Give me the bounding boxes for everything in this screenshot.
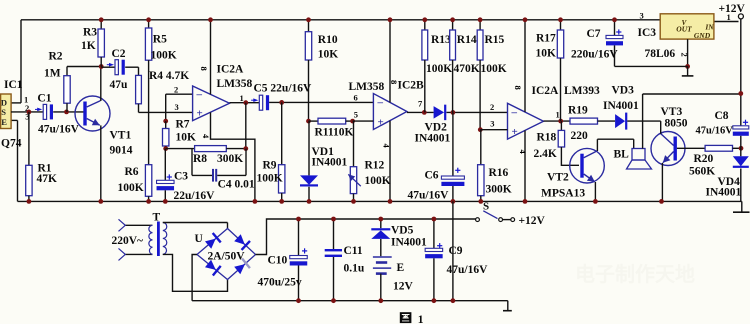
svg-text:IC2B: IC2B — [398, 80, 425, 92]
svg-text:10K: 10K — [536, 48, 557, 60]
resistor R10 — [305, 20, 311, 121]
svg-text:VT2: VT2 — [547, 172, 569, 184]
wire: C5 to IC2B pin6 — [269, 101, 373, 103]
capacitor C3 — [157, 149, 175, 202]
node: R9 top junction — [279, 100, 284, 105]
svg-text:5: 5 — [354, 109, 358, 119]
node: R5 top on +12V rail — [146, 17, 151, 22]
wire: secondary top to bridge — [163, 223, 228, 229]
IC2A pin 8 power riser — [199, 20, 211, 95]
svg-text:VT1: VT1 — [110, 130, 132, 142]
LM393 pin 8 power riser — [513, 20, 525, 112]
wire: R18 to VT2 base — [561, 147, 579, 165]
node: IC2A pin8 on +12V rail — [208, 17, 213, 22]
svg-text:VD3: VD3 — [612, 85, 635, 97]
node: C9 bottom — [432, 298, 437, 303]
R3 labels — [81, 27, 97, 53]
resistor R20 — [705, 145, 741, 151]
svg-text:+: + — [378, 117, 384, 129]
svg-text:C2: C2 — [112, 48, 126, 60]
transformer T primary lead bottom — [125, 253, 152, 255]
svg-text:S: S — [483, 201, 489, 213]
C3 labels — [174, 171, 216, 203]
R13 label — [426, 34, 452, 75]
svg-text:R16: R16 — [489, 167, 509, 179]
VD2 labels — [415, 122, 451, 145]
R2 labels — [44, 51, 63, 80]
wire: VT2 collector to speaker — [597, 139, 633, 148]
resistor R3 — [98, 20, 104, 67]
node: R13 bottom junction on output wire — [422, 110, 427, 115]
svg-text:1: 1 — [240, 93, 244, 103]
svg-text:R7: R7 — [176, 119, 190, 131]
wire: R5 bottom to R6 top (crosses pin3 line) — [148, 60, 150, 165]
terminal: +12V top right — [738, 14, 743, 19]
caption: figure 1 — [400, 312, 424, 324]
R20 labels — [689, 153, 715, 178]
R9 labels — [257, 160, 283, 185]
svg-text:+: + — [512, 126, 518, 138]
svg-text:C11: C11 — [344, 245, 363, 257]
node: VD5 top — [378, 217, 383, 222]
svg-text:10K: 10K — [176, 132, 197, 144]
svg-text:1: 1 — [556, 110, 560, 120]
R12 labels — [365, 160, 391, 188]
wire: VT3 base to R20 — [677, 147, 705, 149]
wire: bridge DC+ line — [256, 219, 476, 255]
svg-text:47u/16V: 47u/16V — [408, 190, 450, 202]
svg-text:R2: R2 — [49, 51, 63, 63]
node: battery to supply ground — [378, 298, 383, 303]
resistor R19 — [570, 118, 615, 124]
node: IC2B pin8 on +12V rail — [388, 17, 393, 22]
wire: IC1 pin2 to C1 — [11, 111, 43, 113]
svg-text:C6: C6 — [425, 170, 439, 182]
svg-text:R1110K: R1110K — [315, 127, 354, 139]
capacitor C2 — [101, 60, 125, 75]
svg-text:12V: 12V — [393, 281, 414, 293]
C4 label — [218, 179, 255, 191]
op-amp IC2B LM358 — [373, 94, 407, 130]
IC2A pin 1 label — [240, 93, 244, 103]
resistor R11 — [309, 118, 353, 124]
wire: IC2A pin3 input line — [139, 111, 193, 113]
VT3 emitter — [662, 152, 673, 202]
C7 labels — [571, 28, 618, 61]
svg-text:6: 6 — [354, 93, 358, 103]
node: C8 top junction — [738, 91, 743, 96]
svg-text:470u/25v: 470u/25v — [258, 277, 302, 289]
node: IC2A pin4 to ground rail — [253, 199, 258, 204]
IC1 pin 1 label — [24, 95, 28, 105]
diode VD1 IN4001 — [300, 121, 318, 201]
node: LM393 pin4 to ground rail — [523, 199, 528, 204]
svg-text:IN4001: IN4001 — [415, 133, 451, 145]
svg-text:IC2A: IC2A — [217, 64, 245, 76]
VT1 collector — [87, 67, 101, 108]
svg-text:E: E — [397, 262, 405, 274]
svg-text:VD5: VD5 — [391, 225, 414, 237]
svg-text:220u/16V: 220u/16V — [571, 49, 618, 61]
bridge diode bottom-right — [233, 259, 250, 276]
svg-text:22u/16V: 22u/16V — [174, 190, 216, 202]
svg-text:C10: C10 — [268, 255, 288, 267]
node: C11 top — [331, 217, 336, 222]
wire: IC2A output — [230, 102, 260, 104]
node: R3/R2/C2/VT1-collector junction — [99, 64, 104, 69]
svg-text:2.4K: 2.4K — [534, 148, 557, 160]
svg-text:8050: 8050 — [665, 118, 688, 130]
svg-text:100K: 100K — [118, 182, 144, 194]
resistor R8 — [166, 146, 246, 152]
wire: right +12V rail — [740, 19, 742, 126]
+12V label (switch) — [519, 215, 546, 227]
C10 labels — [258, 255, 302, 289]
svg-text:100K: 100K — [151, 50, 177, 62]
svg-text:IN4001: IN4001 — [391, 237, 427, 249]
wire: IC1 pin1 riser to top rail — [11, 20, 21, 103]
bridge diode top-right — [233, 233, 250, 250]
12V label — [393, 281, 414, 293]
wire: IC2A pin2 input line — [166, 94, 193, 121]
svg-text:560K: 560K — [689, 166, 715, 178]
svg-text:2: 2 — [174, 85, 178, 95]
wire: C1 to VT1 base — [53, 111, 84, 113]
node: IC3 GND junction — [685, 64, 690, 69]
svg-text:100K: 100K — [426, 63, 452, 75]
wire: secondary bottom to bridge — [163, 254, 228, 291]
VT3 collector — [661, 121, 674, 145]
IC2B pin 6 label — [354, 93, 358, 103]
VT1 labels — [110, 130, 133, 157]
op-amp U2A LM358 (IC2A) — [193, 86, 230, 121]
svg-text:C8: C8 — [715, 110, 729, 122]
svg-text:R17: R17 — [536, 33, 556, 45]
battery E 12V — [373, 239, 392, 301]
node: R17 top on rail — [558, 17, 563, 22]
node: C9 top — [432, 217, 437, 222]
svg-text:R13: R13 — [431, 34, 451, 46]
svg-text:47u/16V: 47u/16V — [696, 126, 734, 137]
svg-text:220V~: 220V~ — [112, 235, 144, 247]
wire: top +12V supply rail — [21, 19, 660, 21]
svg-text:R12: R12 — [365, 160, 385, 172]
node: R9 to ground rail — [279, 199, 284, 204]
svg-text:R18: R18 — [537, 132, 557, 144]
C9 labels — [447, 245, 489, 276]
svg-text:R15: R15 — [485, 34, 505, 46]
node: VT1 base node (R2 bottom) — [64, 110, 69, 115]
resistor R2 — [64, 67, 101, 112]
R6 labels — [118, 166, 144, 194]
IC1 part number Q74 — [1, 138, 22, 150]
svg-text:0.1u: 0.1u — [344, 263, 365, 275]
IC3 pin 2 (GND) drop — [680, 39, 690, 66]
svg-text:470K: 470K — [454, 63, 480, 75]
svg-text:IC1: IC1 — [4, 79, 23, 91]
wire: ground rail link to supply ground — [452, 201, 454, 300]
wire: output to R8 feedback — [245, 103, 247, 149]
2A/50V label — [208, 251, 246, 263]
R11 label — [315, 127, 354, 139]
VT2 collector — [584, 139, 598, 158]
svg-text:R9: R9 — [263, 160, 277, 172]
capacitor C6 — [441, 112, 464, 201]
transistor VT1 9014 — [75, 96, 110, 131]
node: VT2 emitter to ground — [593, 199, 598, 204]
node: R16 to ground rail — [478, 199, 483, 204]
LM393 pin 2 label — [490, 102, 494, 112]
svg-text:10K: 10K — [318, 49, 339, 61]
svg-text:R3: R3 — [83, 27, 97, 39]
resistor R18 — [558, 121, 564, 147]
VD4 labels — [706, 176, 742, 199]
resistor R7 — [163, 121, 169, 149]
node: VT3 emitter to ground — [659, 199, 664, 204]
BL label — [614, 149, 630, 161]
bridge diode top-left — [204, 233, 221, 250]
C1 value label — [38, 124, 80, 136]
svg-text:R20: R20 — [694, 153, 714, 165]
LM393 pin 4 ground drop — [518, 130, 528, 201]
R8 labels — [193, 153, 243, 165]
VD1 labels — [312, 146, 348, 169]
capacitor C8 — [733, 120, 749, 157]
R1 labels — [37, 163, 58, 186]
IC1 pin 3 label — [25, 112, 29, 122]
node: C10 bottom — [296, 298, 301, 303]
svg-text:C9: C9 — [449, 245, 463, 257]
LM393 pin 3 label — [490, 119, 494, 129]
R19 labels — [568, 105, 588, 143]
capacitor C5 — [251, 95, 269, 110]
svg-text:R10: R10 — [318, 34, 338, 46]
svg-text:300K: 300K — [217, 153, 243, 165]
LM393 labels — [532, 85, 601, 97]
svg-text:C1: C1 — [37, 93, 51, 105]
svg-text:8: 8 — [199, 67, 209, 71]
R5 labels — [151, 34, 177, 62]
ground: under IC3 — [682, 66, 694, 76]
capacitor C10 — [290, 219, 308, 301]
svg-text:C3: C3 — [174, 171, 188, 183]
svg-text:IC2A: IC2A — [532, 85, 560, 97]
resistor R15 — [477, 20, 483, 130]
svg-text:8: 8 — [513, 86, 523, 90]
capacitor C9 — [425, 219, 443, 301]
IC3 regulator 78L06 box — [660, 14, 714, 40]
svg-text:3: 3 — [175, 102, 179, 112]
IC1 pin 2 label — [25, 103, 29, 113]
svg-text:MPSA13: MPSA13 — [541, 188, 585, 200]
svg-text:220: 220 — [571, 130, 589, 142]
node: R6 to ground rail — [146, 199, 151, 204]
svg-text:E: E — [1, 117, 7, 127]
IC2A labels — [217, 64, 253, 91]
node: IC2A output junction — [243, 100, 248, 105]
svg-text:IN4001: IN4001 — [312, 157, 348, 169]
node: R20 to right rail — [739, 146, 744, 151]
resistor R4 — [125, 67, 141, 112]
VD5 labels — [391, 225, 427, 249]
node: C7 top on rail — [612, 17, 617, 22]
svg-text:47K: 47K — [37, 173, 58, 185]
svg-text:9014: 9014 — [110, 145, 133, 157]
wire: IC2B pin5 input — [353, 120, 374, 122]
node: IC2B pin4 to ground rail — [388, 199, 393, 204]
IC2B pin 7 label — [418, 99, 423, 109]
capacitor C11 — [325, 219, 342, 301]
wire: LM393 output — [544, 120, 571, 122]
transistor VT2 MPSA13 — [570, 148, 605, 183]
svg-text:1: 1 — [418, 314, 424, 324]
resistor R17 — [557, 20, 563, 121]
node: R14 top on rail — [450, 17, 455, 22]
node: R15/R16/LM393 pin3 junction — [478, 127, 483, 132]
bridge rectifier U 2A/50V — [197, 229, 256, 280]
svg-text:R4 4.7K: R4 4.7K — [149, 70, 189, 82]
U label — [195, 233, 204, 245]
svg-text:300K: 300K — [486, 184, 512, 196]
IC2A pin 4 ground path — [201, 112, 255, 201]
IC3 pin 3 label — [640, 11, 644, 21]
node: R7 top junction — [163, 119, 168, 124]
svg-text:R14: R14 — [457, 34, 477, 46]
decorative watermark (very faint) — [575, 262, 695, 286]
VT3 labels — [661, 106, 688, 130]
svg-text:C5 22u/16V: C5 22u/16V — [254, 83, 313, 95]
terminal marks 220V input — [119, 219, 126, 260]
VT2 labels — [541, 172, 585, 200]
svg-text:100K: 100K — [481, 63, 507, 75]
VT2 emitter — [584, 174, 596, 201]
svg-text:+12V: +12V — [719, 3, 746, 15]
svg-text:1K: 1K — [81, 40, 96, 52]
R15 label — [481, 34, 507, 75]
IC2A pin 3 label — [175, 102, 179, 112]
wire: VD3 cathode node — [627, 120, 660, 122]
bridge diode bottom-left — [204, 259, 221, 276]
+12V label (top) — [719, 3, 746, 15]
diode VD5 IN4001 — [371, 219, 390, 239]
IC3 pin 1 label — [727, 12, 731, 22]
C8 labels — [696, 110, 734, 137]
node: R15 top on rail — [478, 17, 483, 22]
node: R10 top on +12V rail — [306, 17, 311, 22]
resistor R9 — [279, 102, 285, 201]
svg-text:78L06: 78L06 — [645, 48, 676, 60]
node: C3 to ground rail — [163, 199, 168, 204]
C11 labels — [344, 245, 365, 275]
svg-text:D: D — [1, 98, 7, 108]
220V~ label — [112, 235, 144, 247]
svg-text:OUT: OUT — [676, 25, 692, 34]
resistor R6 — [145, 165, 151, 202]
E label — [397, 262, 405, 274]
VT1 emitter — [87, 119, 101, 202]
svg-text:电子制作天地: 电子制作天地 — [575, 262, 695, 286]
svg-text:2: 2 — [680, 53, 690, 57]
op-amp IC2A LM393 — [508, 103, 544, 139]
C6 labels — [408, 170, 450, 202]
resistor R16 — [478, 130, 484, 202]
svg-text:+12V: +12V — [519, 215, 546, 227]
R18 labels — [534, 132, 557, 161]
node: R10/R11/VD1 junction — [306, 119, 311, 124]
IC2B pin 5 label — [354, 109, 358, 119]
svg-text:R5: R5 — [153, 34, 167, 46]
wire: LM393 pin3 input — [480, 129, 507, 131]
wire: bridge DC- to supply ground — [192, 255, 197, 301]
capacitor C4 — [192, 149, 246, 182]
wire: VD2 cathode to LM393 pin2 — [447, 111, 508, 113]
svg-text:1: 1 — [727, 12, 731, 22]
IC1 label — [4, 79, 23, 91]
diode VD4 IN4001 — [733, 156, 749, 201]
IC3 labels — [638, 27, 676, 60]
svg-text:R19: R19 — [568, 105, 588, 117]
svg-text:BL: BL — [614, 149, 630, 161]
node: LM393 output junction — [558, 119, 563, 124]
svg-text:47u/16V: 47u/16V — [38, 124, 80, 136]
wire: IC2B output to VD2 — [407, 111, 434, 113]
svg-text:1M: 1M — [44, 68, 61, 80]
diode VD3 IN4001 — [615, 113, 627, 130]
wire: speaker to VD3 node and +12V — [643, 94, 741, 149]
svg-text:Q74: Q74 — [1, 138, 22, 150]
node: R7 bottom junction — [163, 146, 168, 151]
IC1 sensor box Q74 — [1, 94, 12, 129]
C1 designator — [37, 93, 51, 105]
node: R1 to ground rail — [27, 199, 32, 204]
R10 labels — [318, 34, 339, 61]
svg-text:LM358: LM358 — [349, 81, 385, 93]
node: LM393 pin8 on rail — [523, 17, 528, 22]
node: VT1 emitter to ground — [98, 199, 103, 204]
resistor R13 — [422, 20, 428, 113]
svg-text:2A/50V: 2A/50V — [208, 251, 246, 263]
wire: IC1 pin3 to ground rail — [11, 120, 18, 201]
S label — [483, 201, 489, 213]
node: VD2/R14/C6 junction — [451, 110, 456, 115]
R16 labels — [486, 167, 512, 196]
IC2B pin 8 power riser — [389, 20, 391, 103]
svg-text:–: – — [377, 97, 384, 109]
node: C11 bottom — [331, 298, 336, 303]
R14 label — [454, 34, 480, 75]
svg-text:2: 2 — [490, 102, 494, 112]
IC2B labels — [349, 80, 425, 94]
transformer T primary lead top — [125, 224, 152, 226]
resistor R5 — [145, 20, 151, 60]
svg-text:IN4001: IN4001 — [603, 100, 639, 112]
potentiometer R12 — [348, 121, 361, 201]
node: R8 right junction — [243, 146, 248, 151]
svg-text:C7: C7 — [587, 28, 601, 40]
IC2B pin 4 ground drop — [382, 121, 392, 202]
svg-text:VT3: VT3 — [661, 106, 683, 118]
C2 labels — [110, 48, 129, 91]
transistor VT3 8050 — [651, 132, 685, 166]
node: IC1 pin2 junction — [27, 110, 32, 115]
wire: supply ground line — [192, 300, 508, 302]
svg-text:IC3: IC3 — [638, 27, 657, 39]
svg-text:–: – — [511, 107, 518, 119]
svg-text:R8: R8 — [193, 153, 207, 165]
svg-text:3: 3 — [640, 11, 644, 21]
R17 labels — [536, 33, 557, 60]
node: link to supply ground — [451, 298, 456, 303]
